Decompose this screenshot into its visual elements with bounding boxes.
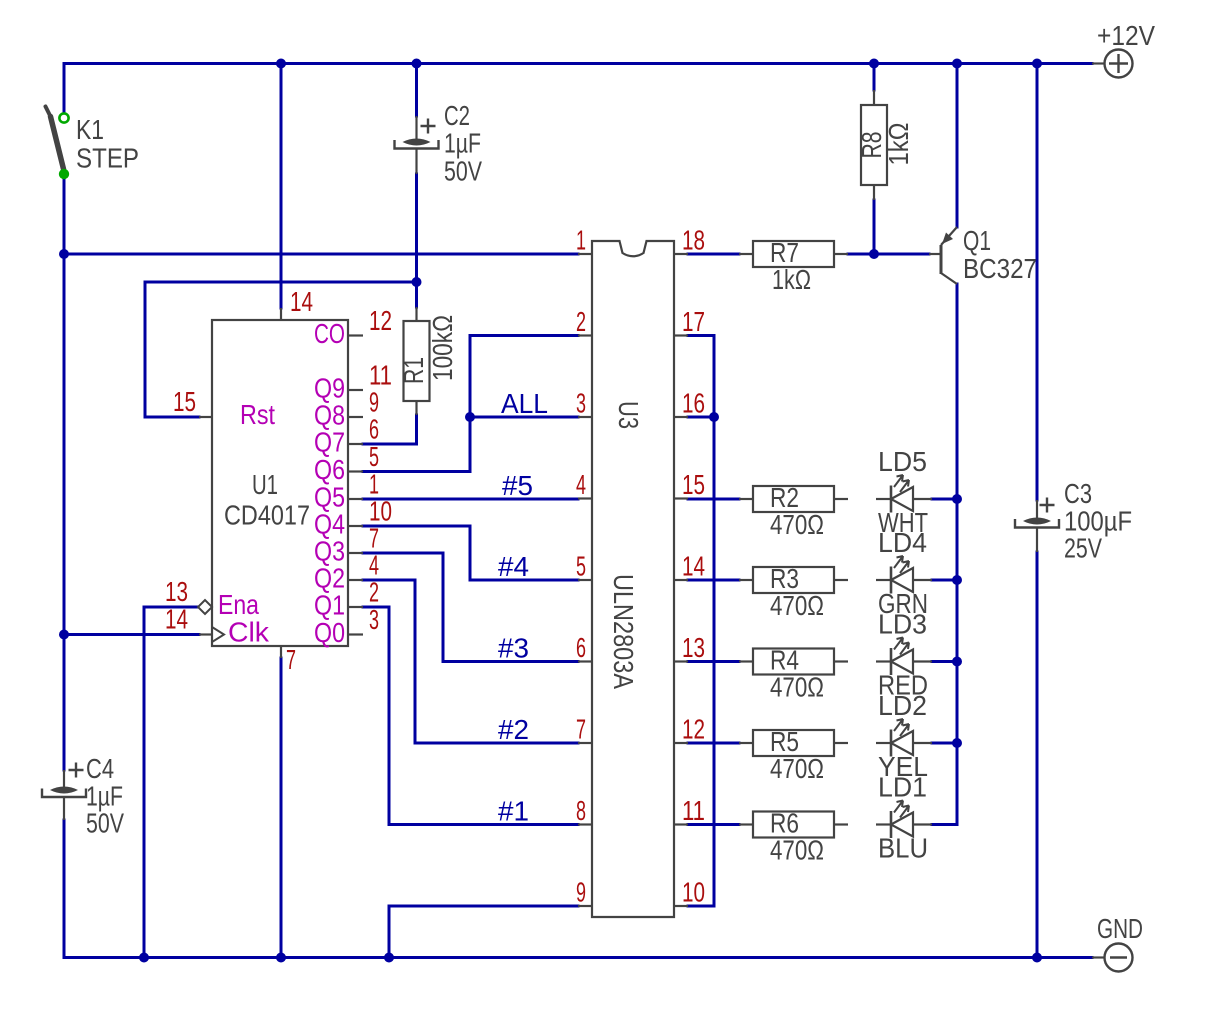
resistor R5 left lead	[739, 742, 753, 744]
wire net #5 Q5 to U3 pin 4	[363, 498, 578, 501]
svg-text:#5: #5	[502, 470, 533, 501]
transistor Q1 emitter	[941, 227, 957, 245]
U1 pin stub Q1	[348, 606, 363, 608]
svg-text:1: 1	[576, 225, 586, 256]
wire U1 pin7 to bottom rail	[280, 658, 283, 958]
U1 pin stub Q0	[348, 633, 363, 635]
svg-text:12: 12	[369, 305, 392, 336]
junction node 1	[412, 59, 422, 69]
U3 left pin stub 6	[578, 660, 592, 662]
LED LD2 triangle	[891, 731, 913, 755]
wire LED anode row 1 to bus	[932, 579, 957, 582]
resistor R6 right lead	[834, 823, 848, 825]
svg-text:Q7: Q7	[314, 427, 345, 458]
LED LD3 anode lead	[913, 660, 932, 662]
resistor R2 left lead	[739, 498, 753, 500]
transistor Q1 collector	[941, 273, 957, 284]
resistor R3 right lead	[834, 579, 848, 581]
U1 pin stub Q2	[348, 579, 363, 581]
svg-text:BLU: BLU	[878, 833, 928, 864]
LED LD3 emission arrows	[894, 638, 909, 655]
svg-text:Clk: Clk	[228, 617, 270, 648]
junction node 18	[1032, 953, 1042, 963]
resistor R1 bottom lead	[415, 401, 417, 415]
resistor R6 body	[753, 812, 834, 838]
svg-text:#3: #3	[498, 633, 529, 664]
svg-text:14: 14	[682, 551, 705, 582]
switch K1 top contact	[59, 113, 68, 122]
U3 left pin stub 7	[578, 742, 592, 744]
junction node 0	[276, 59, 286, 69]
LED LD3 cathode lead	[876, 660, 891, 662]
LED LD2 emission arrows	[894, 719, 909, 736]
wire Q1 collector LED bus	[932, 284, 957, 825]
junction node 7	[465, 412, 475, 422]
capacitor C3 top lead	[1036, 500, 1038, 518]
GND circle	[1105, 944, 1133, 972]
svg-text:LD1: LD1	[878, 772, 927, 803]
capacitor C3 bottom lead	[1036, 528, 1038, 553]
junction node 4	[1032, 59, 1042, 69]
svg-text:2: 2	[576, 306, 586, 337]
wire U3 output to R row 4	[688, 823, 739, 826]
wire net #1 Q1 to U3 pin 8	[363, 607, 578, 825]
svg-text:LD4: LD4	[878, 527, 927, 558]
wire LED anode row 2 to bus	[932, 660, 957, 663]
transistor Q1 emitter arrow	[942, 233, 953, 245]
wire net #3 Q3 to U3 pin 6	[363, 553, 578, 662]
resistor R2 body	[753, 486, 834, 512]
junction node 11	[952, 494, 962, 504]
resistor R3 left lead	[739, 579, 753, 581]
U3 left pin stub 4	[578, 497, 592, 499]
svg-text:GND: GND	[1097, 913, 1143, 944]
LED LD2 anode lead	[913, 742, 932, 744]
svg-text:1kΩ: 1kΩ	[883, 123, 914, 166]
wire LED anode row 3 to bus	[932, 742, 957, 745]
wire U3 output to R row 2	[688, 660, 739, 663]
switch K1 lever	[51, 117, 64, 170]
svg-text:9: 9	[576, 877, 586, 908]
svg-text:14: 14	[290, 286, 313, 317]
LED LD2 cathode lead	[876, 742, 891, 744]
capacitor C4 bottom lead	[63, 797, 65, 820]
wire K1 to clock rail	[63, 171, 66, 254]
svg-text:15: 15	[173, 386, 196, 417]
junction node 14	[952, 738, 962, 748]
U1 pin stub Q4	[348, 525, 363, 527]
capacitor C3 bottom plate	[1015, 519, 1059, 528]
resistor R7 right lead	[834, 253, 848, 255]
capacitor C4 bottom plate	[42, 789, 86, 798]
svg-text:3: 3	[369, 604, 379, 635]
U1 pin stub Q5	[348, 498, 363, 500]
U1 Clk pin clock symbol	[212, 627, 224, 642]
wire C3 top	[1036, 64, 1039, 501]
svg-text:1µF: 1µF	[444, 128, 481, 159]
svg-text:470Ω: 470Ω	[770, 509, 824, 540]
svg-text:K1: K1	[76, 114, 104, 145]
wire C2 bottom to R1 node	[415, 174, 418, 282]
U3 right pin stub 16	[674, 416, 688, 418]
svg-text:470Ω: 470Ω	[770, 753, 824, 784]
resistor R8 body	[861, 105, 887, 185]
svg-text:50V: 50V	[444, 156, 482, 187]
LED LD4 anode lead	[913, 579, 932, 581]
svg-text:10: 10	[682, 877, 705, 908]
U3 left pin stub 2	[578, 334, 592, 336]
U1 Ena pin diamond	[198, 600, 212, 614]
svg-text:U1: U1	[252, 469, 278, 500]
GND minus	[1110, 956, 1127, 958]
wire Clk from left rail	[64, 633, 199, 636]
svg-text:17: 17	[682, 306, 705, 337]
LED LD1 cathode lead	[876, 823, 891, 825]
capacitor C4 top plate	[50, 787, 78, 794]
wire U3 pin16 to bus	[688, 416, 714, 419]
capacitor C2 plus sign	[421, 119, 436, 134]
wire U3 pin18 to R7	[688, 253, 739, 256]
svg-text:ALL: ALL	[501, 388, 548, 419]
junction node 3	[952, 59, 962, 69]
junction node 15	[139, 953, 149, 963]
svg-text:7: 7	[286, 644, 296, 675]
junction node 5	[59, 249, 69, 259]
capacitor C2 top lead	[415, 116, 417, 139]
resistor R8 top lead	[873, 90, 875, 105]
LED LD5 anode lead	[913, 498, 932, 500]
svg-text:470Ω: 470Ω	[770, 835, 824, 866]
+12V supply circle	[1105, 50, 1133, 78]
U1 pin stub Q3	[348, 552, 363, 554]
svg-text:5: 5	[369, 441, 379, 472]
capacitor C3 plus sign	[1040, 498, 1055, 513]
U3 right pin stub 10	[674, 905, 688, 907]
svg-text:LD2: LD2	[878, 690, 927, 721]
U3 right pin stub 18	[674, 253, 688, 255]
wire U3 pin 9 to bottom rail	[389, 906, 578, 958]
U1 pin stub CO	[348, 334, 363, 336]
GND stub	[1092, 956, 1105, 958]
wire Q1 emitter to top rail	[956, 64, 959, 228]
resistor R2 right lead	[834, 498, 848, 500]
U3 left pin stub 1	[578, 253, 592, 255]
wire LED anode row 0 to bus	[932, 498, 957, 501]
junction node 13	[952, 657, 962, 667]
U1 pin stub Q6	[348, 470, 363, 472]
wire clock rail (net to U3 pin 1)	[64, 253, 578, 256]
svg-text:#1: #1	[498, 796, 529, 827]
svg-text:CD4017: CD4017	[224, 500, 310, 531]
svg-text:Q1: Q1	[314, 590, 345, 621]
U3 right pin stub 14	[674, 579, 688, 581]
U3 left pin stub 3	[578, 416, 592, 418]
svg-text:18: 18	[682, 225, 705, 256]
svg-text:STEP: STEP	[76, 143, 139, 174]
resistor R5 body	[753, 730, 834, 756]
LED LD5 cathode bar	[890, 486, 893, 513]
resistor R3 body	[753, 567, 834, 593]
U1 pin stub Q9	[348, 389, 363, 391]
capacitor C4 top lead	[63, 770, 65, 787]
svg-text:C4: C4	[86, 753, 114, 784]
junction node 12	[952, 575, 962, 585]
wire R8 top	[873, 64, 876, 91]
wire R1 node to Rst	[145, 282, 417, 417]
LED LD4 triangle	[891, 568, 913, 592]
svg-text:2: 2	[369, 577, 379, 608]
svg-text:4: 4	[576, 469, 586, 500]
svg-text:LD5: LD5	[878, 446, 927, 477]
svg-text:Q1: Q1	[963, 225, 991, 256]
svg-text:7: 7	[576, 714, 586, 745]
wire C2 top	[415, 64, 418, 117]
svg-text:BC327: BC327	[963, 253, 1037, 284]
svg-text:3: 3	[576, 388, 586, 419]
resistor R1 body	[404, 321, 430, 401]
wire R1 bottom to Q7	[363, 415, 417, 444]
+12V plus	[1109, 54, 1128, 73]
capacitor C4 plus sign	[69, 763, 84, 778]
resistor R7 body	[753, 241, 834, 267]
U3 left pin stub 8	[578, 823, 592, 825]
wire U3 output to R row 0	[688, 498, 739, 501]
svg-text:8: 8	[576, 795, 586, 826]
wire U3 pin17 bus	[688, 336, 714, 907]
junction node 6	[412, 277, 422, 287]
svg-text:50V: 50V	[86, 808, 124, 839]
svg-text:#2: #2	[498, 714, 529, 745]
svg-text:Ena: Ena	[218, 589, 259, 620]
op-amp U1 body	[212, 320, 348, 646]
U1 Rst pin stub	[199, 416, 212, 418]
U3 right pin stub 15	[674, 497, 688, 499]
resistor R6 left lead	[739, 823, 753, 825]
svg-text:U3: U3	[613, 401, 644, 429]
resistor R4 left lead	[739, 660, 753, 662]
LED LD1 cathode bar	[890, 811, 893, 838]
svg-text:6: 6	[369, 414, 379, 445]
capacitor C3 top plate	[1023, 518, 1051, 525]
svg-text:470Ω: 470Ω	[770, 590, 824, 621]
svg-text:6: 6	[576, 632, 586, 663]
wire net ALL to U3 pin 3	[470, 416, 578, 419]
U3 right pin stub 12	[674, 742, 688, 744]
svg-text:13: 13	[682, 632, 705, 663]
svg-text:R1: R1	[398, 357, 429, 384]
svg-text:C3: C3	[1064, 478, 1092, 509]
svg-text:14: 14	[165, 604, 188, 635]
junction node 17	[384, 953, 394, 963]
junction node 10	[869, 249, 879, 259]
svg-text:CO: CO	[314, 318, 345, 349]
svg-text:13: 13	[165, 576, 188, 607]
resistor R8 bottom lead	[873, 185, 875, 200]
LED LD3 cathode bar	[890, 648, 893, 675]
svg-text:12: 12	[682, 714, 705, 745]
U1 pin stub Q8	[348, 416, 363, 418]
wire U3 output to R row 1	[688, 579, 739, 582]
resistor R7 left lead	[739, 253, 753, 255]
svg-text:5: 5	[576, 551, 586, 582]
svg-text:100kΩ: 100kΩ	[427, 315, 458, 381]
resistor R1 top lead	[415, 307, 417, 321]
svg-text:470Ω: 470Ω	[770, 672, 824, 703]
wire GND bottom rail	[64, 956, 1092, 959]
LED LD4 emission arrows	[894, 556, 909, 573]
transistor Q1 base bar	[940, 245, 943, 274]
U1 pin14 stub	[280, 308, 282, 320]
svg-text:+12V: +12V	[1097, 20, 1155, 51]
+12V supply stub	[1092, 62, 1105, 64]
wire R1 top	[415, 282, 418, 307]
ULN2803A U3 body	[592, 241, 674, 917]
LED LD3 triangle	[891, 650, 913, 674]
LED LD1 anode lead	[913, 823, 932, 825]
wire R7 to Q1 base	[848, 253, 929, 256]
wire left rail K1 down to Clk node	[63, 254, 66, 635]
svg-text:15: 15	[682, 469, 705, 500]
U1 pin stub Q7	[348, 443, 363, 445]
svg-text:ULN2803A: ULN2803A	[608, 574, 639, 689]
LED LD2 cathode bar	[890, 730, 893, 757]
LED LD5 emission arrows	[894, 475, 909, 492]
junction node 2	[869, 59, 879, 69]
U3 right pin stub 13	[674, 660, 688, 662]
svg-text:#4: #4	[498, 551, 529, 582]
LED LD4 cathode bar	[890, 567, 893, 594]
svg-text:16: 16	[682, 388, 705, 419]
resistor R4 body	[753, 649, 834, 675]
U1 Clk pin stub	[199, 633, 212, 635]
LED LD5 cathode lead	[876, 498, 891, 500]
svg-text:Rst: Rst	[240, 399, 275, 430]
LED LD1 triangle	[891, 813, 913, 837]
U3 right pin stub 17	[674, 334, 688, 336]
svg-text:11: 11	[682, 795, 705, 826]
junction node 8	[709, 412, 719, 422]
resistor R5 right lead	[834, 742, 848, 744]
svg-text:Q6: Q6	[314, 454, 345, 485]
wire net #2 Q2 to U3 pin 7	[363, 580, 578, 743]
wire Q6 to ALL node	[363, 417, 470, 472]
svg-text:LD3: LD3	[878, 609, 927, 640]
resistor R4 right lead	[834, 660, 848, 662]
wire +12V top rail	[64, 62, 1092, 65]
wire net #4 Q4 to U3 pin 5	[363, 526, 578, 580]
LED LD1 emission arrows	[894, 801, 909, 818]
svg-text:C2: C2	[444, 100, 470, 131]
LED LD5 triangle	[891, 487, 913, 511]
wire R8 bottom to base node	[873, 200, 876, 254]
wire U1 pin14 to top rail	[280, 64, 283, 309]
wire U3 output to R row 3	[688, 742, 739, 745]
U3 left pin stub 9	[578, 905, 592, 907]
svg-text:Q0: Q0	[314, 617, 345, 648]
junction node 9	[59, 630, 69, 640]
transistor Q1 base lead	[929, 253, 941, 255]
U3 right pin stub 11	[674, 823, 688, 825]
wire C4 to bottom rail	[63, 820, 66, 958]
switch K1 lever tip	[46, 107, 51, 116]
U3 left pin stub 5	[578, 579, 592, 581]
wire left rail to K1	[63, 64, 66, 115]
wire ALL node up to U3 pin 2	[470, 336, 578, 418]
U1 pin7 stub	[280, 646, 282, 658]
svg-text:1kΩ: 1kΩ	[772, 264, 811, 295]
wire Ena to bottom rail	[144, 607, 198, 958]
capacitor C2 top plate	[403, 139, 431, 146]
capacitor C2 bottom lead	[415, 149, 417, 175]
wire Clk node to C4	[63, 635, 66, 771]
junction node 16	[276, 953, 286, 963]
capacitor C2 bottom plate	[395, 140, 439, 149]
wire C3 bottom	[1036, 552, 1039, 958]
svg-text:25V: 25V	[1064, 533, 1102, 564]
LED LD4 cathode lead	[876, 579, 891, 581]
switch K1 bottom contact	[59, 169, 69, 179]
